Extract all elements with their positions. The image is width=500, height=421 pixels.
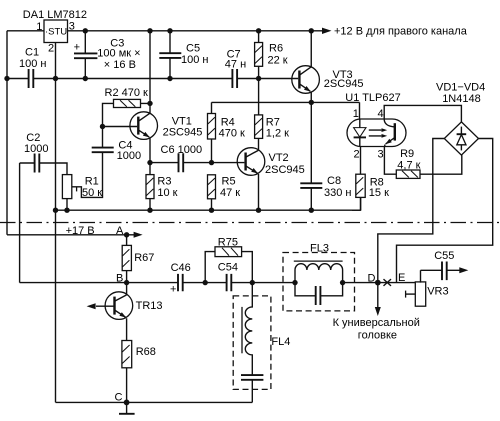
optocoupler U1 TLP627 bbox=[345, 92, 406, 160]
wire top rail pin3 to +12V arrow bbox=[68, 30, 325, 32]
node VT1 base junction bbox=[100, 124, 105, 129]
svg-text:1: 1 bbox=[36, 21, 42, 33]
svg-text:R68: R68 bbox=[136, 346, 156, 358]
junction X break symbol bbox=[384, 279, 392, 286]
wire arrow to universal head bbox=[377, 283, 379, 308]
svg-text:VT2: VT2 bbox=[269, 152, 289, 164]
transistor TR13 bbox=[87, 283, 163, 341]
svg-text:C5: C5 bbox=[186, 43, 200, 55]
wire line over R4 to opto pin1 bbox=[212, 102, 360, 119]
wire rail2 segment c to VT3 base bbox=[237, 78, 298, 80]
svg-text:C46: C46 bbox=[171, 262, 191, 274]
svg-text:A: A bbox=[116, 225, 124, 237]
svg-text:R6: R6 bbox=[269, 43, 283, 55]
svg-text:C54: C54 bbox=[218, 261, 238, 273]
node top rail junctions bbox=[83, 28, 88, 33]
svg-text:1000: 1000 bbox=[117, 150, 141, 162]
capacitor C54 bbox=[218, 261, 238, 291]
ground bbox=[126, 402, 128, 413]
svg-text:VR3: VR3 bbox=[427, 286, 448, 298]
svg-text:головке: головке bbox=[358, 329, 397, 341]
svg-text:C55: C55 bbox=[434, 250, 454, 262]
capacitor C2 bbox=[20, 132, 67, 283]
filter FL4 bbox=[233, 283, 290, 403]
wire rail2 segment a bbox=[7, 78, 29, 80]
svg-text:R3: R3 bbox=[157, 176, 171, 188]
svg-text:470 к: 470 к bbox=[219, 128, 245, 140]
wire bridge right corner down to node E bbox=[397, 139, 493, 283]
svg-text:4,7 к: 4,7 к bbox=[397, 160, 420, 172]
node A bbox=[124, 232, 129, 237]
capacitor C5 bbox=[159, 31, 208, 79]
resistor R67 bbox=[122, 235, 154, 283]
wire node B line bbox=[20, 282, 421, 284]
svg-text:U1 TLP627: U1 TLP627 bbox=[345, 92, 400, 104]
wire R2/VT1 collector vertical bbox=[149, 31, 151, 114]
svg-text:E: E bbox=[398, 272, 405, 284]
resistor R4 bbox=[208, 102, 246, 162]
resistor R5 bbox=[208, 175, 241, 210]
svg-text:22 к: 22 к bbox=[268, 54, 288, 66]
transistor VT2 2SC945 bbox=[237, 148, 305, 211]
svg-text:3: 3 bbox=[378, 149, 384, 161]
resistor R7 bbox=[255, 115, 290, 150]
ic U1 DA1 LM7812 regulator bbox=[23, 9, 87, 55]
svg-text:1,2 к: 1,2 к bbox=[266, 128, 289, 140]
wire bottom rail of top section bbox=[56, 197, 361, 210]
svg-text:100 мк ×: 100 мк × bbox=[97, 48, 140, 60]
wire rail2 segment b bbox=[33, 78, 232, 80]
svg-text:1000: 1000 bbox=[24, 143, 48, 155]
svg-text:C8: C8 bbox=[327, 175, 341, 187]
svg-text:R9: R9 bbox=[400, 148, 414, 160]
wire left vertical input bbox=[6, 31, 8, 235]
svg-text:R67: R67 bbox=[134, 252, 154, 264]
svg-text:C1: C1 bbox=[25, 46, 39, 58]
wire bridge left corner down to node D bbox=[378, 139, 445, 283]
svg-text:R2 470 к: R2 470 к bbox=[105, 87, 149, 99]
node VT1 emitter junction bbox=[147, 160, 152, 165]
svg-text:1: 1 bbox=[353, 108, 359, 120]
svg-text:+: + bbox=[170, 284, 176, 296]
trimmer VR3 bbox=[406, 282, 449, 306]
resistor R2 bbox=[103, 87, 151, 127]
svg-text:100 н: 100 н bbox=[19, 58, 46, 70]
wire pin2 ground vertical down to C line bbox=[56, 43, 253, 403]
node B bbox=[124, 280, 129, 285]
transistor VT1 2SC945 bbox=[130, 112, 202, 163]
diode bridge VD1-VD4 1N4148 bbox=[436, 82, 485, 156]
resistor R8 bbox=[352, 147, 389, 211]
node +12V arrow bbox=[322, 28, 332, 34]
svg-text:2: 2 bbox=[48, 43, 54, 55]
node VT3 emitter / C8 junction bbox=[309, 100, 314, 105]
svg-text:× 16 В: × 16 В bbox=[104, 59, 136, 71]
svg-text:D: D bbox=[368, 272, 376, 284]
svg-text:C6 1000: C6 1000 bbox=[161, 144, 203, 156]
resistor R3 bbox=[146, 163, 178, 211]
resistor R68 bbox=[122, 341, 156, 403]
svg-text:2SC945: 2SC945 bbox=[163, 127, 203, 139]
svg-text:·STU: ·STU bbox=[45, 26, 67, 37]
svg-text:1N4148: 1N4148 bbox=[442, 93, 481, 105]
capacitor C7 bbox=[225, 49, 246, 88]
node R75 right / FL4 junction bbox=[250, 280, 255, 285]
capacitor C6 bbox=[150, 144, 212, 172]
svg-text:К универсальной: К универсальной bbox=[333, 317, 420, 329]
svg-text:47 к: 47 к bbox=[220, 187, 240, 199]
svg-text:FL4: FL4 bbox=[271, 336, 290, 348]
svg-text:R1: R1 bbox=[85, 176, 99, 188]
capacitor C4 bbox=[72, 127, 141, 198]
node R75 left junction bbox=[203, 280, 208, 285]
svg-text:FL3: FL3 bbox=[310, 243, 329, 255]
resistor R6 bbox=[255, 31, 288, 115]
svg-text:+17 В: +17 В bbox=[66, 225, 95, 237]
svg-text:2SC945: 2SC945 bbox=[265, 164, 305, 176]
resistor R1 trimmer 50k bbox=[62, 175, 102, 211]
transistor VT3 2SC945 bbox=[292, 31, 364, 103]
svg-text:50 к: 50 к bbox=[82, 187, 102, 199]
svg-text:R5: R5 bbox=[222, 176, 236, 188]
capacitor C46 electrolytic bbox=[170, 262, 191, 296]
svg-text:VD1−VD4: VD1−VD4 bbox=[436, 82, 485, 94]
svg-text:3: 3 bbox=[69, 21, 75, 33]
divider dash-dot line bbox=[0, 222, 500, 224]
svg-text:+: + bbox=[74, 42, 80, 54]
svg-text:100 н: 100 н bbox=[181, 54, 208, 66]
svg-text:R75: R75 bbox=[218, 236, 238, 248]
node VT2 base junction bbox=[209, 160, 214, 165]
capacitor C8 bbox=[300, 102, 351, 210]
capacitor C1 bbox=[19, 46, 46, 88]
wire +17V line to node A bbox=[7, 234, 135, 236]
svg-text:2: 2 bbox=[354, 149, 360, 161]
svg-text:C: C bbox=[115, 392, 123, 404]
resistor R9 bbox=[384, 147, 461, 179]
svg-text:4: 4 bbox=[378, 108, 384, 120]
wire top rail left to pin1 bbox=[7, 30, 44, 32]
node rail2 junctions bbox=[4, 76, 9, 81]
node bottom rail junctions bbox=[53, 208, 58, 213]
wire VT2 base bbox=[212, 162, 245, 164]
resistor R75 bbox=[205, 236, 252, 282]
filter FL3 bbox=[283, 243, 355, 311]
wire VT1 base bbox=[103, 126, 138, 128]
capacitor C55 output bbox=[421, 250, 469, 283]
capacitor C3 electrolytic bbox=[74, 31, 141, 79]
svg-text:2SC945: 2SC945 bbox=[324, 78, 364, 90]
svg-text:15 к: 15 к bbox=[369, 187, 389, 199]
svg-text:330 н: 330 н bbox=[324, 187, 351, 199]
wire opto pin4 to bridge top bbox=[384, 105, 461, 122]
svg-text:47 н: 47 н bbox=[225, 59, 246, 71]
svg-text:DA1 LM7812: DA1 LM7812 bbox=[23, 9, 87, 21]
svg-text:B: B bbox=[116, 272, 123, 284]
svg-text:+12 В для правого канала: +12 В для правого канала bbox=[334, 26, 468, 38]
svg-text:10 к: 10 к bbox=[157, 187, 177, 199]
svg-text:TR13: TR13 bbox=[136, 300, 163, 312]
